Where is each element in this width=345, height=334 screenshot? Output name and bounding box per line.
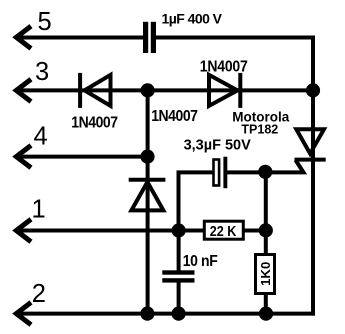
wire line 5 left segment [16, 36, 143, 40]
terminal label 4 [34, 123, 48, 151]
junction node line3 / right rail [306, 83, 320, 97]
junction node line4 / middle rail [140, 150, 154, 164]
diode D1 value label [71, 114, 117, 132]
thyristor name label Motorola [232, 109, 289, 124]
terminal label 5 [38, 8, 52, 36]
wire 22K right rail [264, 172, 268, 314]
terminal arrow 5 [16, 26, 31, 48]
wire gate horizontal left and drop to line 1 [179, 172, 214, 230]
junction node line2 / middle rail [140, 307, 154, 321]
thyristor Motorola TP182 [295, 129, 326, 159]
svg-text:22 K: 22 K [210, 223, 237, 239]
svg-text:2: 2 [32, 280, 46, 308]
capacitor C1 value label [162, 10, 223, 26]
svg-text:10 nF: 10 nF [183, 254, 218, 271]
junction node line1 / 10nF branch [172, 223, 186, 237]
wire right rail [311, 36, 315, 316]
wire line 2 [16, 312, 315, 316]
svg-text:1N4007: 1N4007 [200, 58, 248, 76]
thyristor name label TP182 [241, 123, 278, 137]
wire line 3 [16, 88, 313, 92]
resistor R2 value label rotated [258, 262, 273, 286]
svg-text:1N4007: 1N4007 [151, 107, 197, 125]
wire 10nF branch top [177, 231, 181, 272]
wire line 4 [16, 155, 147, 159]
terminal label 2 [32, 280, 46, 308]
terminal arrow 1 [16, 219, 31, 241]
svg-text:1K0: 1K0 [258, 262, 273, 286]
svg-text:1N4007: 1N4007 [71, 114, 117, 132]
wire middle rail [146, 90, 150, 313]
terminal label 3 [35, 58, 49, 86]
diode D2 value label [200, 58, 248, 76]
diode D2 1N4007 on line 3 pointing right [209, 73, 240, 108]
capacitor C1 1uF 400V plates [143, 22, 156, 53]
svg-text:4: 4 [34, 123, 48, 151]
capacitor C2 3,3uF 50V polarized [214, 157, 228, 189]
junction node line2 / 1K0 rail [259, 307, 273, 321]
diode D1 1N4007 on line 3 pointing left [80, 73, 110, 108]
diode D3 1N4007 vertical pointing up [129, 180, 166, 211]
terminal arrow 4 [16, 145, 31, 167]
resistor R1 value label [210, 223, 237, 239]
wire gate horizontal right to thyristor [226, 160, 304, 172]
terminal arrow 3 [16, 79, 31, 101]
wire line 1 [16, 229, 265, 233]
junction node line3 / middle rail [141, 83, 155, 97]
terminal label 1 [32, 196, 46, 224]
junction node line1 / 22K rail [259, 223, 273, 237]
junction node line2 / 10nF branch [172, 307, 186, 321]
svg-text:5: 5 [38, 8, 52, 36]
resistor R1 22K box [204, 221, 243, 239]
svg-text:TP182: TP182 [241, 123, 278, 137]
svg-text:1: 1 [32, 196, 46, 224]
resistor R2 1K0 box [256, 255, 275, 294]
svg-text:3,3µF 50V: 3,3µF 50V [184, 137, 252, 153]
svg-text:3: 3 [35, 58, 49, 86]
diode D3 value label [151, 107, 197, 125]
junction node gate wire / 22K rail [258, 165, 272, 179]
wire 10nF branch bottom [177, 281, 181, 314]
wire line 5 right segment [156, 36, 315, 40]
capacitor C3 value label [183, 254, 218, 271]
capacitor C2 value label [184, 137, 252, 153]
svg-text:1µF 400 V: 1µF 400 V [162, 10, 223, 26]
capacitor C3 10nF plates [162, 270, 194, 282]
terminal arrow 2 [16, 302, 31, 324]
